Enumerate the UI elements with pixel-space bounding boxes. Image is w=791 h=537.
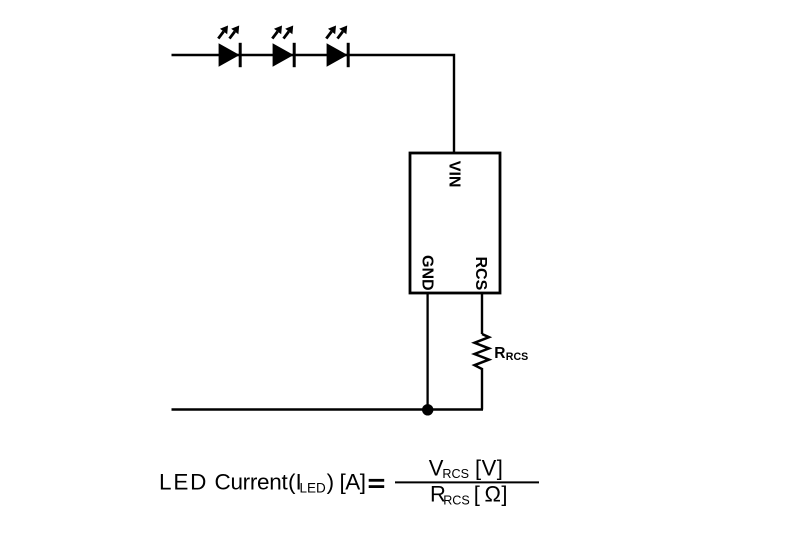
svg-text:LEDCurrent(ILED)[A]: LEDCurrent(ILED)[A] [159, 470, 366, 496]
svg-text:RCS: RCS [472, 257, 489, 291]
svg-text:GND: GND [418, 255, 435, 291]
formula fraction bar [395, 481, 539, 483]
wire: bottom rail [172, 408, 484, 410]
resistor RRCS zigzag [475, 334, 490, 369]
resistor label RRCS [494, 345, 528, 363]
junction dot [422, 404, 433, 415]
wire: GND pin down to bottom rail [426, 293, 428, 410]
svg-text:VRCS[V]: VRCS[V] [429, 456, 504, 482]
equals sign [369, 479, 385, 482]
LED D2 [272, 26, 294, 68]
LED D1 [218, 26, 240, 68]
wire: resistor bottom to rail [481, 368, 483, 410]
svg-text:VIN: VIN [446, 161, 463, 188]
op-amp U1 (LED driver IC body) [410, 153, 500, 293]
svg-text:R: R [494, 345, 505, 362]
LED D3 [326, 26, 348, 68]
wire: top horizontal from left end to corner above IC [172, 55, 455, 153]
svg-text:RCS: RCS [506, 351, 528, 363]
wire: RCS pin down to resistor [481, 293, 483, 334]
svg-text:RRCS[Ω]: RRCS[Ω] [430, 481, 508, 507]
